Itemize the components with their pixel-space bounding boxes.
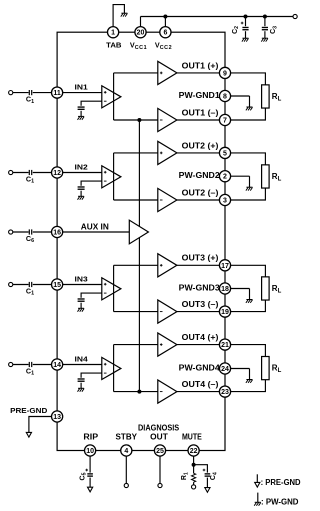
svg-text:: PW-GND: : PW-GND — [261, 498, 299, 507]
svg-text:OUT3 (+): OUT3 (+) — [182, 254, 219, 263]
svg-text:IN3: IN3 — [75, 275, 88, 284]
svg-text:1: 1 — [111, 30, 115, 37]
svg-text:IN2: IN2 — [75, 163, 88, 172]
svg-text:TAB: TAB — [106, 41, 121, 50]
svg-text:OUT2 (+): OUT2 (+) — [182, 141, 219, 150]
svg-text:AUX IN: AUX IN — [81, 222, 109, 231]
svg-text:22: 22 — [190, 448, 198, 455]
svg-text:6: 6 — [163, 30, 167, 37]
svg-text:10: 10 — [86, 448, 94, 455]
svg-text:PW-GND4: PW-GND4 — [179, 363, 221, 372]
svg-text:24: 24 — [221, 366, 229, 373]
svg-text:DIAGNOSIS: DIAGNOSIS — [138, 424, 180, 433]
svg-text:OUT4 (–): OUT4 (–) — [182, 380, 219, 389]
svg-text:OUT: OUT — [150, 432, 168, 441]
svg-text:8: 8 — [223, 94, 227, 101]
svg-text:23: 23 — [221, 389, 229, 396]
svg-text:OUT3 (–): OUT3 (–) — [182, 300, 219, 309]
svg-text:OUT4 (+): OUT4 (+) — [182, 333, 219, 342]
svg-text:5: 5 — [223, 150, 227, 157]
svg-text:18: 18 — [221, 286, 229, 293]
svg-text:12: 12 — [53, 170, 61, 177]
svg-text:: PRE-GND: : PRE-GND — [261, 478, 301, 487]
svg-text:15: 15 — [53, 282, 61, 289]
svg-text:OUT1 (–): OUT1 (–) — [182, 108, 219, 117]
svg-text:STBY: STBY — [116, 432, 138, 441]
svg-text:19: 19 — [221, 309, 229, 316]
svg-text:4: 4 — [124, 448, 128, 455]
svg-text:IN1: IN1 — [75, 83, 88, 92]
svg-text:14: 14 — [53, 362, 61, 369]
svg-text:MUTE: MUTE — [182, 432, 202, 441]
svg-text:PW-GND1: PW-GND1 — [179, 91, 221, 100]
svg-text:PW-GND3: PW-GND3 — [179, 283, 221, 292]
svg-text:17: 17 — [221, 263, 229, 270]
svg-text:21: 21 — [221, 342, 229, 349]
svg-text:25: 25 — [156, 448, 164, 455]
svg-text:PW-GND2: PW-GND2 — [179, 171, 221, 180]
svg-text:16: 16 — [53, 230, 61, 237]
svg-text:9: 9 — [223, 70, 227, 77]
svg-text:IN4: IN4 — [75, 355, 89, 364]
svg-text:3: 3 — [223, 198, 227, 205]
svg-text:OUT1 (+): OUT1 (+) — [182, 61, 219, 70]
svg-text:RIP: RIP — [83, 432, 98, 441]
svg-text:7: 7 — [223, 118, 227, 125]
svg-text:11: 11 — [53, 90, 61, 97]
svg-text:OUT2 (–): OUT2 (–) — [182, 188, 219, 197]
svg-text:20: 20 — [137, 30, 145, 37]
svg-text:PRE-GND: PRE-GND — [10, 406, 47, 415]
svg-text:2: 2 — [223, 174, 227, 181]
svg-text:13: 13 — [53, 414, 61, 421]
